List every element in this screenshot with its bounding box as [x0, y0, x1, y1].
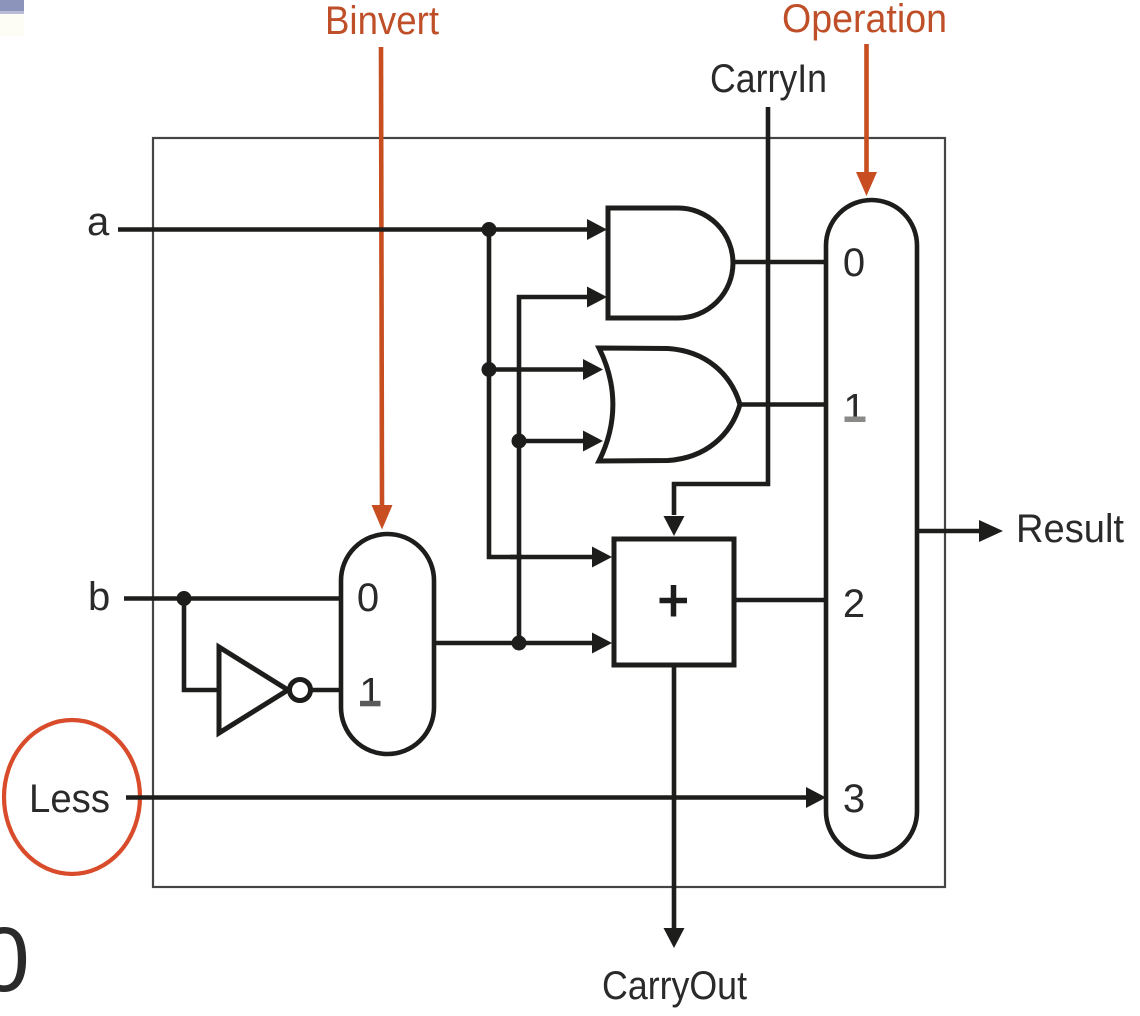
wire b-mux branch up to AND input 2 [519, 297, 592, 643]
svg-text:0: 0 [843, 241, 865, 285]
adder plus sign [660, 585, 688, 617]
junction dot b [177, 591, 192, 606]
Operation control arrow [856, 44, 877, 196]
inverter bubble [290, 680, 311, 701]
OR gate [599, 348, 740, 461]
arrowhead a to AND input 1 [587, 219, 607, 240]
wire b-mux output to adder input 2 [434, 641, 600, 646]
wire CarryOut [672, 665, 677, 928]
arrowhead a to adder input 1 [592, 547, 612, 568]
AND gate [608, 208, 733, 318]
wire b to OR input 2 [519, 439, 589, 444]
inverter NOT gate [219, 647, 288, 733]
svg-text:3: 3 [843, 777, 865, 821]
svg-text:0: 0 [0, 909, 30, 1011]
svg-text:1: 1 [359, 671, 381, 715]
arrowhead b to AND input 2 [587, 287, 607, 308]
orange highlight circle [4, 720, 140, 874]
svg-text:CarryOut: CarryOut [602, 964, 747, 1008]
Binvert control arrow [372, 47, 393, 530]
ALU enclosure box [153, 138, 945, 887]
wire a input [118, 227, 594, 232]
wire a to adder input 1 [510, 555, 600, 560]
arrowhead b-mux to adder input 2 [592, 633, 612, 654]
arrowhead Result [979, 520, 1003, 542]
svg-text:1: 1 [843, 387, 865, 431]
slide corner decoration [0, 0, 24, 11]
svg-text:Result: Result [1016, 507, 1124, 551]
wire OR output to mux input 1 [740, 402, 828, 407]
svg-text:a: a [87, 200, 110, 244]
arrowhead a to OR input 1 [583, 359, 603, 380]
svg-text:0: 0 [357, 576, 379, 620]
junction dot a to OR [482, 362, 497, 377]
wire Less to mux input 3 [126, 795, 816, 800]
arrowhead Less to mux input 3 [806, 787, 826, 808]
arrowhead b to OR input 2 [583, 431, 603, 452]
junction dot a [482, 222, 497, 237]
junction dot b to OR [512, 434, 527, 449]
arrowhead CarryOut [664, 928, 685, 948]
mux Binvert 2:1 [341, 534, 434, 754]
wire CarryIn down, elbow left, into adder [674, 107, 768, 515]
svg-text:Operation: Operation [782, 0, 947, 41]
wire b input [124, 596, 343, 601]
svg-text:CarryIn: CarryIn [710, 57, 827, 101]
mux Operation 4:1 [826, 200, 917, 857]
wire inverter to b-mux input 1 [311, 688, 343, 693]
wire b down to inverter [184, 599, 219, 691]
svg-text:Binvert: Binvert [325, 0, 439, 43]
svg-text:2: 2 [843, 582, 865, 626]
wire a to OR input 1 [489, 367, 589, 372]
wire a branch down [489, 230, 522, 558]
arrowhead CarryIn into adder [664, 516, 685, 536]
wire AND output to mux input 0 [733, 260, 828, 265]
svg-text:Less: Less [29, 777, 110, 821]
wire adder output to mux input 2 [734, 598, 828, 603]
junction dot b-mux output [512, 636, 527, 651]
svg-text:b: b [88, 575, 110, 619]
wire Result output [917, 529, 981, 534]
adder box [614, 539, 734, 665]
